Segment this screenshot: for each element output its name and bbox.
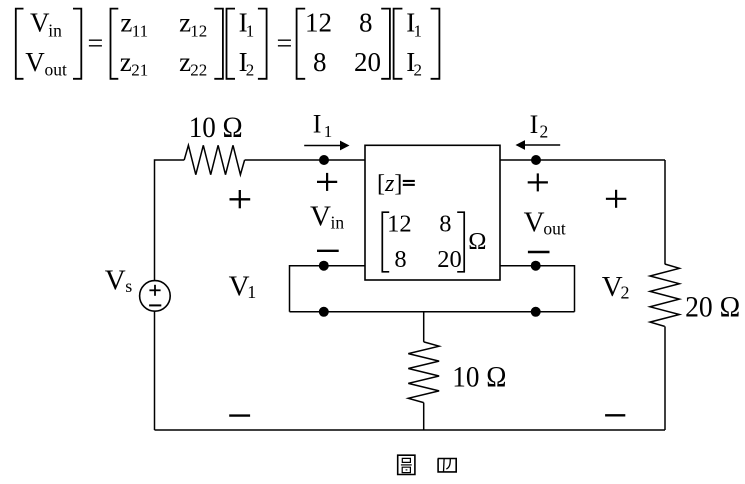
label I1 current (313, 109, 333, 141)
svg-text:V: V (105, 264, 126, 296)
svg-text:V: V (25, 47, 45, 77)
label V1 (229, 271, 257, 303)
label z22 (179, 47, 207, 80)
bottom rail wire (155, 429, 666, 431)
svg-text:[z]: [z] (377, 171, 402, 197)
svg-text:2: 2 (540, 122, 549, 142)
svg-text:out: out (45, 60, 68, 80)
label z12 (179, 7, 207, 40)
wire stub lower rail to 10 ohm resistor (423, 312, 425, 342)
matrix bracket left of [Vin;Vout] (16, 9, 24, 79)
equals sign 1 (88, 29, 104, 60)
node Vin+ junction dot (319, 155, 329, 165)
svg-text:z: z (120, 7, 132, 37)
matrix bracket right of [I1;I2] second (431, 9, 440, 79)
matrix bracket left inside box (382, 212, 389, 272)
svg-text:V: V (524, 207, 545, 239)
wire right vertical lower (664, 326, 666, 430)
lower rail wire (common) (290, 311, 575, 313)
minus sign V1 (229, 414, 250, 416)
label [z]= inside box (377, 171, 415, 197)
wire Vin- loop (box left-bottom to lower rail) (290, 266, 366, 312)
label Vs (105, 264, 133, 296)
two-port network box U1 (365, 145, 500, 280)
value label 20 ohm (685, 291, 740, 323)
svg-text:12: 12 (190, 22, 207, 41)
svg-text:8: 8 (313, 47, 327, 77)
label I1 (second) (406, 7, 422, 40)
node Vout+ junction dot (531, 155, 541, 165)
value 8 row2 (313, 47, 327, 77)
arrow I1 (points right) (304, 141, 349, 151)
svg-text:2: 2 (621, 282, 630, 302)
svg-text:20 Ω: 20 Ω (685, 291, 740, 323)
value 8 row2 (box) (394, 246, 406, 273)
value 8 row1 (box) (439, 211, 451, 238)
value 12 (305, 7, 332, 37)
plus sign Vout (528, 173, 548, 191)
label z21 (120, 47, 149, 80)
svg-text:in: in (331, 213, 345, 233)
svg-text:20: 20 (437, 246, 462, 273)
matrix bracket right of numeric matrix (381, 9, 390, 79)
svg-text:2: 2 (246, 61, 255, 80)
arrow I2 (points left) (516, 140, 561, 150)
resistor R1 10 ohm horizontal (184, 145, 244, 174)
voltage source Vs circle (140, 281, 171, 312)
svg-text:8: 8 (439, 211, 451, 238)
resistor R3 10 ohm vertical (408, 342, 439, 403)
equals sign 2 (277, 29, 293, 60)
matrix bracket right of [Vin;Vout] (73, 9, 81, 79)
svg-text:in: in (48, 21, 62, 41)
value 20 (354, 47, 381, 77)
wire left vertical top (Vs top to top-left corner) and top horizontal to resistor (155, 160, 185, 281)
label I1 (first) (239, 7, 255, 40)
svg-text:=: = (277, 29, 293, 60)
plus sign V2 (606, 190, 626, 208)
svg-text:12: 12 (305, 7, 332, 37)
matrix bracket right of z matrix (214, 9, 223, 79)
label Vin (circuit) (310, 201, 344, 233)
label Vin (equation) (30, 7, 62, 40)
plus sign V1 (230, 190, 251, 208)
matrix bracket left of [I1;I2] first (227, 9, 236, 79)
svg-text:22: 22 (190, 61, 207, 80)
svg-text:20: 20 (354, 47, 381, 77)
value 20 (box) (437, 246, 462, 273)
matrix bracket right inside box (457, 212, 464, 272)
svg-text:s: s (125, 276, 132, 296)
node Vin- junction dot (319, 261, 329, 271)
svg-text:Ω: Ω (468, 228, 486, 255)
label Vout (circuit) (524, 207, 566, 239)
svg-text:11: 11 (132, 22, 148, 41)
label ohm unit of box matrix (468, 228, 486, 255)
svg-text:10 Ω: 10 Ω (452, 361, 506, 393)
plus sign inside Vs (149, 285, 160, 296)
svg-text:1: 1 (246, 22, 255, 41)
svg-text:8: 8 (394, 246, 406, 273)
svg-text:21: 21 (131, 61, 148, 80)
value label 10 ohm (bottom) (452, 361, 506, 393)
caption glyph TU (figure) (398, 455, 415, 474)
svg-text:10 Ω: 10 Ω (189, 112, 243, 144)
wire 10 ohm resistor to bottom rail (423, 403, 425, 430)
plus sign Vin (317, 173, 337, 191)
svg-text:I: I (313, 109, 322, 138)
wire resistor to two-port box input (245, 159, 365, 161)
minus sign Vout (528, 251, 550, 253)
svg-text:V: V (30, 7, 50, 37)
caption glyph four (438, 459, 457, 472)
wire Vout- loop (box right-bottom to lower rail) (500, 266, 575, 312)
value 12 (box) (387, 211, 412, 238)
resistor R2 20 ohm vertical (650, 264, 679, 326)
svg-text:12: 12 (387, 211, 412, 238)
svg-text:V: V (310, 201, 331, 233)
svg-text:2: 2 (414, 61, 423, 80)
matrix bracket left of [I1;I2] second (394, 9, 403, 79)
label z11 (120, 7, 148, 40)
svg-text:out: out (543, 219, 566, 239)
wire right vertical upper (664, 160, 666, 264)
node Vout- junction dot (531, 261, 541, 271)
label I2 (first) (239, 47, 255, 80)
value 8 row1 (359, 7, 373, 37)
label Vout (equation) (25, 47, 67, 80)
svg-text:8: 8 (359, 7, 373, 37)
minus sign Vin (317, 250, 339, 252)
wire left vertical lower (Vs bottom to rail) (154, 311, 156, 430)
node on lower rail left junction dot (319, 307, 329, 317)
svg-text:=: = (88, 29, 104, 60)
svg-text:1: 1 (324, 122, 333, 141)
node on lower rail right junction dot (531, 307, 541, 317)
label I2 (second) (406, 47, 422, 80)
matrix bracket left of numeric matrix (297, 9, 306, 79)
value label 10 ohm (top) (189, 112, 243, 144)
label V2 (602, 271, 630, 303)
matrix bracket left of z matrix (111, 9, 119, 79)
minus sign inside Vs (149, 304, 161, 306)
svg-text:z: z (120, 47, 132, 77)
svg-text:1: 1 (414, 22, 423, 41)
wire box output to right corner (500, 159, 665, 161)
matrix bracket right of [I1;I2] first (258, 9, 267, 79)
svg-text:1: 1 (247, 282, 256, 302)
svg-text:I: I (530, 110, 539, 139)
minus sign V2 (605, 414, 625, 416)
label I2 current (530, 110, 549, 142)
